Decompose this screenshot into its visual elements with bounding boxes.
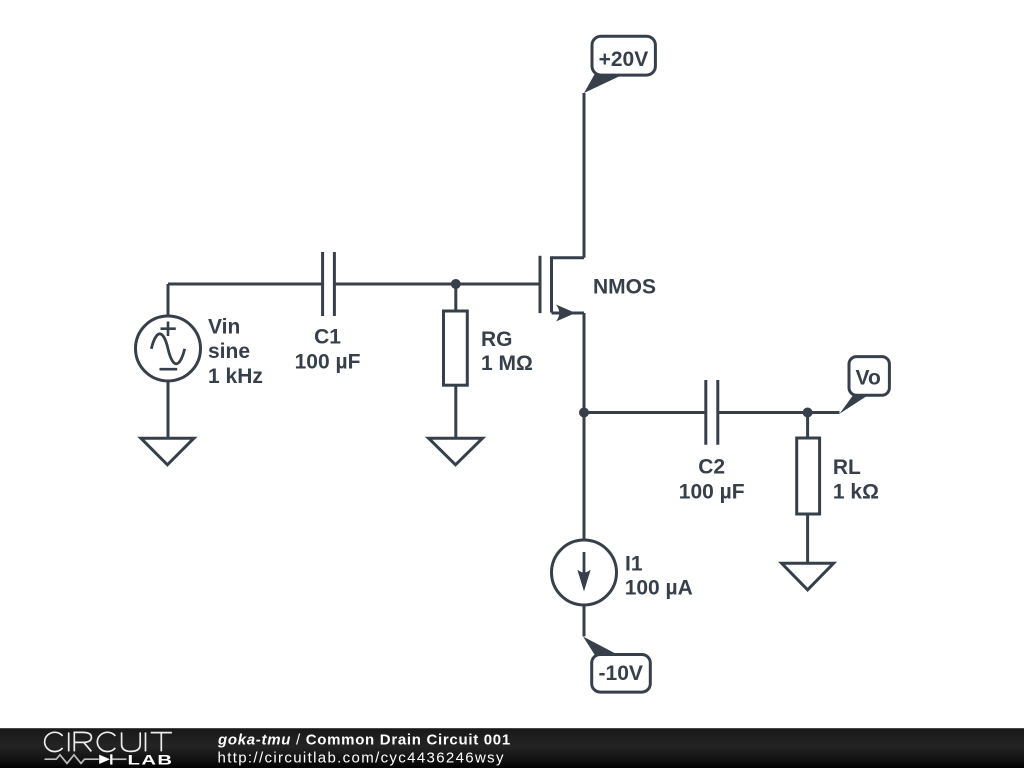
wire [454, 284, 457, 311]
wire [334, 283, 538, 286]
CircuitLab logo diode triangle [99, 755, 110, 764]
CircuitLab logo diode cathode bar [110, 754, 112, 764]
svg-text:+20V: +20V [599, 48, 649, 71]
ground [141, 438, 194, 465]
svg-text:100 µF: 100 µF [679, 481, 745, 504]
label I1 100 uA [625, 553, 693, 600]
wire [718, 411, 808, 414]
svg-text:C2: C2 [698, 456, 725, 479]
CircuitLab logo resistor-diode glyph [45, 755, 127, 764]
label RL 1 kOhm [833, 456, 879, 504]
wire [167, 381, 170, 438]
net flag -10V box [592, 655, 651, 693]
wire [167, 284, 170, 316]
svg-text:RG: RG [481, 328, 513, 351]
wire [808, 411, 840, 414]
wire [584, 411, 706, 414]
svg-text:NMOS: NMOS [593, 275, 656, 298]
label C1 100 uF [295, 326, 361, 374]
resistor RG [444, 311, 468, 385]
capacitor C1 [323, 252, 335, 316]
transistor NMOS source arrow [556, 305, 576, 322]
label C2 100 uF [679, 456, 745, 504]
svg-text:I1: I1 [625, 553, 643, 576]
wire [454, 385, 457, 438]
wire [806, 413, 809, 439]
svg-text:C1: C1 [314, 326, 341, 349]
wire [583, 413, 586, 541]
wire [583, 313, 586, 413]
wire [583, 93, 586, 258]
ground [429, 438, 483, 465]
CircuitLab logo CIRCUIT [45, 732, 172, 751]
transistor NMOS source lead [552, 312, 585, 315]
wire [168, 283, 323, 286]
svg-text:LAB: LAB [128, 752, 174, 768]
wire [583, 605, 586, 637]
transistor NMOS drain lead [552, 256, 585, 259]
current source I1 [552, 540, 617, 605]
svg-text:RL: RL [833, 456, 861, 479]
node gate junction [451, 279, 461, 289]
net flag +20V box [592, 36, 655, 75]
svg-text:Vin: Vin [208, 316, 240, 339]
net flag -10V tail [583, 637, 617, 655]
svg-text:-10V: -10V [599, 662, 643, 685]
svg-text:100 µA: 100 µA [625, 577, 693, 600]
footer bar [0, 728, 1024, 768]
node source junction [579, 408, 589, 418]
label RG 1 MOhm [481, 328, 533, 375]
svg-text:1 kΩ: 1 kΩ [833, 480, 879, 503]
ground [782, 563, 834, 590]
svg-text:100 µF: 100 µF [295, 351, 361, 374]
transistor NMOS gate bar [539, 256, 542, 313]
wire [806, 514, 809, 563]
svg-text:goka-tmu / Common Drain Circui: goka-tmu / Common Drain Circuit 001 [217, 731, 511, 748]
net flag Vo tail [840, 395, 869, 414]
voltage source V1 Vin [136, 316, 201, 381]
capacitor C2 [706, 380, 718, 445]
node output junction [803, 408, 813, 418]
svg-text:http://circuitlab.com/cyc44362: http://circuitlab.com/cyc4436246wsy [218, 749, 505, 766]
svg-text:1 MΩ: 1 MΩ [481, 352, 533, 375]
net flag +20V tail [584, 74, 621, 94]
svg-text:sine: sine [208, 340, 250, 363]
resistor RL [797, 438, 820, 514]
transistor NMOS channel bar [550, 256, 553, 312]
svg-text:Vo: Vo [856, 367, 881, 390]
net flag Vo box [849, 357, 889, 396]
svg-text:1 kHz: 1 kHz [208, 365, 263, 388]
label Vin sine 1 kHz [208, 316, 263, 388]
